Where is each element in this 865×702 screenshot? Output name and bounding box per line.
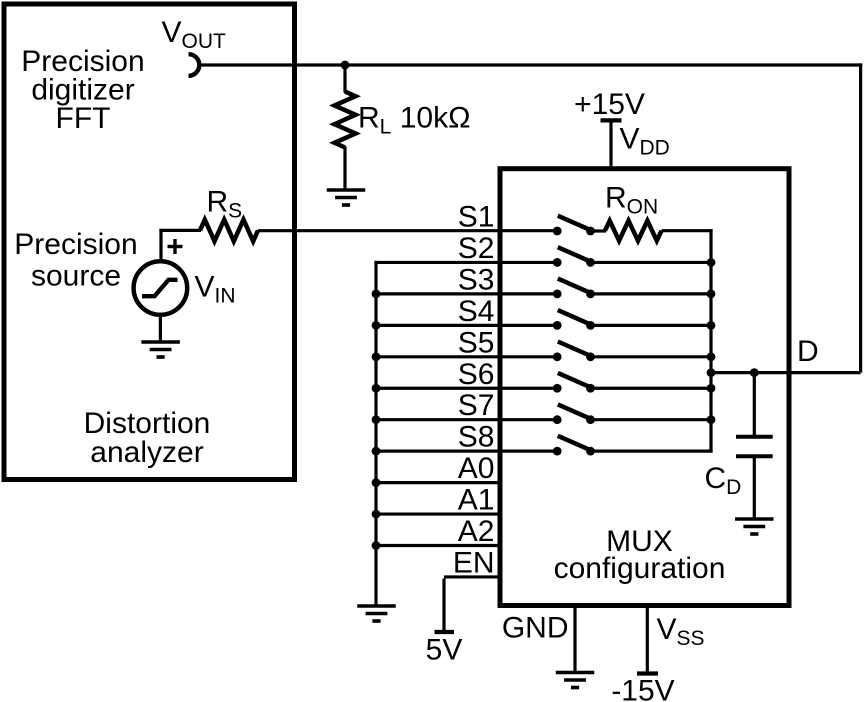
wire RL bottom lead [343, 147, 346, 191]
label MUX configuration [554, 525, 726, 585]
junction dot at CD tap [750, 368, 759, 377]
wire S2 pin [374, 261, 558, 264]
switch S3 left contact dot [553, 290, 562, 299]
label Precision source [14, 228, 137, 293]
svg-text:VOUT: VOUT [162, 16, 227, 53]
resistor RS [200, 220, 258, 242]
svg-text:GND: GND [502, 612, 569, 645]
wire source bottom [159, 315, 162, 342]
label VOUT [162, 16, 227, 53]
pin label A1 [458, 484, 495, 517]
svg-text:CD: CD [705, 462, 742, 499]
wire RON to bus corner [662, 229, 713, 232]
wire source top to RS [159, 229, 201, 260]
pin label S5 [458, 326, 495, 359]
switch S4 right contact dot [586, 321, 595, 330]
pin label S8 [458, 421, 495, 454]
junction dot right bus at S3 [707, 290, 716, 299]
supply bar 5V [435, 630, 455, 634]
svg-text:VSS: VSS [657, 613, 705, 650]
resistor RON [605, 221, 662, 241]
svg-text:RON: RON [605, 181, 658, 218]
junction dot left bus at A0 [372, 478, 381, 487]
wire EN to 5V source [442, 579, 445, 631]
pin label EN [453, 546, 495, 579]
svg-text:D: D [797, 335, 819, 368]
svg-text:VIN: VIN [195, 271, 236, 308]
ground below source [141, 342, 180, 357]
supply bar +15V [601, 118, 622, 122]
switch S4 blade [558, 310, 589, 324]
label D [797, 335, 819, 368]
wire CD bottom lead [753, 456, 756, 519]
switch S1 blade [558, 216, 589, 230]
junction dot right bus at S6 [707, 384, 716, 393]
plus sign at source + [168, 239, 183, 254]
label GND [502, 612, 569, 645]
source VIN circle [134, 261, 188, 315]
wire D output [711, 371, 861, 374]
pin label A0 [458, 452, 495, 485]
switch S8 blade [558, 436, 589, 450]
switch S3 right contact dot [586, 290, 595, 299]
switch S8 left contact dot [553, 447, 562, 456]
connector arc at VOUT output [189, 54, 200, 76]
svg-text:source: source [31, 260, 121, 293]
wire A1 pin [374, 512, 502, 515]
wire VOUT horizontal [198, 63, 862, 66]
svg-text:5V: 5V [426, 634, 463, 667]
label Precision digitizer FFT [21, 45, 144, 135]
wire GND stub [573, 605, 576, 673]
wire S3 pin [374, 292, 558, 295]
switch S8 right contact dot [586, 447, 595, 456]
svg-text:RL 10kΩ: RL 10kΩ [358, 101, 471, 138]
instrument box: Distortion analyzer / Precision digitizer FFT [4, 4, 295, 480]
wire S6 pin [374, 387, 558, 390]
switch S3 blade [558, 279, 589, 293]
switch S6 left contact dot [553, 384, 562, 393]
switch S1 left contact dot [553, 227, 562, 236]
label VDD [620, 122, 670, 159]
wire A0 pin [374, 481, 502, 484]
switch S6 blade [558, 373, 589, 387]
pin label S6 [458, 358, 495, 391]
switch S5 right contact dot [586, 352, 595, 361]
pin label S1 [458, 201, 495, 234]
resistor RL [335, 92, 356, 148]
switch S7 left contact dot [553, 415, 562, 424]
svg-text:S2: S2 [458, 232, 495, 265]
sigmoid symbol inside source [142, 280, 178, 296]
switch S6 right contact dot [586, 384, 595, 393]
junction dot left bus at S8 [372, 447, 381, 456]
wire S7 pin [374, 418, 558, 421]
label RON [605, 181, 658, 218]
svg-text:S5: S5 [458, 326, 495, 359]
wire EN pin [444, 575, 502, 578]
svg-text:S4: S4 [458, 295, 495, 328]
ground below left bus [357, 606, 396, 621]
svg-text:VDD: VDD [620, 122, 670, 159]
svg-text:S3: S3 [458, 263, 495, 296]
wire right bus vertical (switch outputs) [709, 229, 712, 452]
wire S4 switch to bus [591, 324, 712, 327]
wire CD top lead [753, 373, 756, 437]
wire S2 switch to bus [591, 261, 712, 264]
switch S4 left contact dot [553, 321, 562, 330]
MUX box outline [500, 169, 789, 606]
wire S7 switch to bus [591, 418, 712, 421]
wire S8 pin [374, 450, 558, 453]
svg-text:configuration: configuration [554, 552, 726, 585]
svg-text:A1: A1 [458, 484, 495, 517]
ground below CD [735, 519, 774, 534]
wire S1 switch to RON [591, 229, 607, 232]
wire RL top lead [343, 65, 346, 93]
junction dot left bus at S4 [372, 321, 381, 330]
junction dot left bus at S7 [372, 415, 381, 424]
capacitor CD plates [736, 437, 773, 457]
svg-text:analyzer: analyzer [90, 436, 203, 469]
supply bar VSS [637, 671, 658, 675]
junction dot left bus at S3 [372, 290, 381, 299]
svg-text:S6: S6 [458, 358, 495, 391]
svg-text:Precision: Precision [14, 228, 137, 261]
svg-text:S8: S8 [458, 421, 495, 454]
wire A2 pin [374, 544, 502, 547]
label VIN [195, 271, 236, 308]
ground below GND pin [556, 673, 595, 688]
switch S5 blade [558, 342, 589, 356]
junction dot right bus at S7 [707, 415, 716, 424]
label Distortion analyzer [84, 407, 211, 469]
junction dot left bus at S5 [372, 352, 381, 361]
svg-text:EN: EN [453, 546, 495, 579]
switch S2 left contact dot [553, 258, 562, 267]
svg-text:+15V: +15V [574, 88, 645, 121]
wire right vertical (VOUT to D) [859, 63, 862, 372]
label CD [705, 462, 742, 499]
wire VSS stub [646, 605, 649, 673]
junction dot left bus at S6 [372, 384, 381, 393]
junction dot right bus at S2 [707, 258, 716, 267]
svg-text:FFT: FFT [56, 102, 111, 135]
wire S5 switch to bus [591, 355, 712, 358]
label RS [207, 186, 243, 223]
junction dot left bus at A1 [372, 510, 381, 519]
wire RS to S1 pin [258, 229, 558, 232]
switch S5 left contact dot [553, 352, 562, 361]
wire S6 switch to bus [591, 387, 712, 390]
svg-text:A0: A0 [458, 452, 495, 485]
label VSS [657, 613, 705, 650]
pin label A2 [458, 515, 495, 548]
pin label S4 [458, 295, 495, 328]
wire VDD stub [609, 120, 612, 168]
svg-text:S1: S1 [458, 201, 495, 234]
wire S3 switch to bus [591, 292, 712, 295]
wire S8 switch to bus corner [591, 450, 713, 453]
pin label S2 [458, 232, 495, 265]
label -15V [611, 675, 674, 702]
wire S4 pin [374, 324, 558, 327]
label RL 10kOhm [358, 101, 471, 138]
ground below RL [327, 190, 366, 205]
switch S2 blade [558, 247, 589, 261]
junction dot at RL top [341, 61, 350, 70]
junction dot right bus at S4 [707, 321, 716, 330]
switch S7 blade [558, 404, 589, 418]
label 5V [426, 634, 463, 667]
switch S7 right contact dot [586, 415, 595, 424]
pin label S7 [458, 389, 495, 422]
junction dot left bus at A2 [372, 541, 381, 550]
pin label S3 [458, 263, 495, 296]
label +15V [574, 88, 645, 121]
wire left ground bus vertical [374, 261, 377, 606]
wire S5 pin [374, 355, 558, 358]
switch S2 right contact dot [586, 258, 595, 267]
junction dot right bus at S5 [707, 352, 716, 361]
switch S1 right contact dot [586, 227, 595, 236]
svg-text:-15V: -15V [611, 675, 674, 702]
svg-text:S7: S7 [458, 389, 495, 422]
svg-text:A2: A2 [458, 515, 495, 548]
junction dot right bus at D [707, 368, 716, 377]
